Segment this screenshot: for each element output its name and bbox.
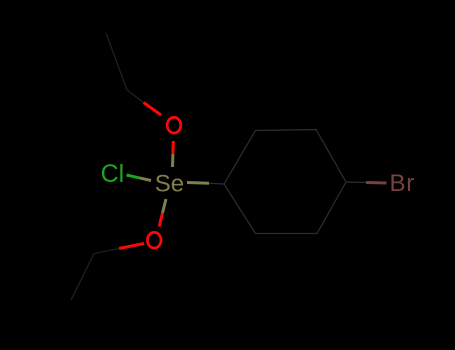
bond O2-CH2 red half xyxy=(119,244,144,249)
bond Se-O2 olive half xyxy=(163,199,167,213)
svg-text:Br: Br xyxy=(390,170,416,197)
bond Se-ring carbon half xyxy=(209,182,224,185)
atom O2 (bottom ethoxy oxygen) xyxy=(147,232,161,248)
bond ring-Br dark-red half xyxy=(366,181,387,185)
svg-text:Cl: Cl xyxy=(101,160,125,188)
atom O1 (top ethoxy oxygen) xyxy=(167,117,181,133)
bond Se-O1 olive half xyxy=(171,154,174,167)
bond Cl-Se green half xyxy=(127,175,140,178)
bond O(top)-CH2 red half xyxy=(144,103,162,116)
svg-text:Se: Se xyxy=(155,171,184,198)
bond Se-ring olive half xyxy=(187,181,209,185)
bond Se-O1 red half xyxy=(171,141,174,154)
bond Se-O2 red half xyxy=(159,213,162,227)
ethyl chain top (carbon skeleton, CH3-CH2-) xyxy=(106,33,144,103)
bond ring-Br carbon half xyxy=(346,181,366,184)
bond Cl-Se olive half xyxy=(139,178,151,181)
benzene ring (carbon hexagon) xyxy=(224,130,346,234)
ethyl chain bottom (carbon skeleton, -CH2-CH3) xyxy=(71,249,119,301)
